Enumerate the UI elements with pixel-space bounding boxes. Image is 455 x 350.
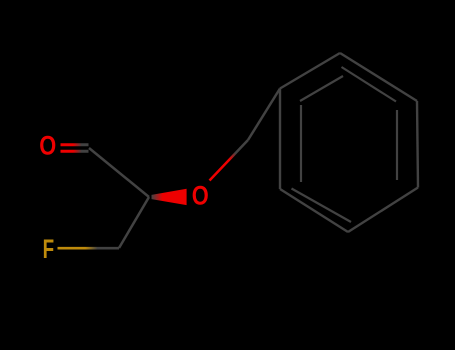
ring inner line on C-D bbox=[396, 110, 398, 180]
svg-text:O: O bbox=[192, 181, 209, 211]
ring inner line on E-F bbox=[292, 189, 352, 223]
wire CH2-ipso bbox=[248, 89, 280, 141]
wire C3-F bbox=[58, 247, 120, 250]
ring edge C-D bbox=[417, 101, 418, 188]
ring edge F-A bbox=[279, 89, 281, 190]
wire C2-C3 bbox=[119, 197, 149, 248]
ring inner line on B-C bbox=[342, 67, 397, 102]
wire C1-C2 bbox=[89, 148, 149, 197]
double bond C1=O1 bbox=[61, 145, 89, 152]
svg-text:O: O bbox=[39, 130, 56, 160]
wedge bond C2-O2 (stereocenter) bbox=[152, 189, 187, 205]
ring edge A-B bbox=[280, 53, 340, 89]
svg-text:F: F bbox=[43, 234, 55, 264]
benzene ring (phenyl, double-line style) bbox=[280, 53, 418, 232]
wire O2-CH2 bbox=[210, 140, 249, 181]
ring edge E-F bbox=[280, 189, 348, 232]
ring inner line on F-A bbox=[300, 105, 302, 182]
ring edge B-C bbox=[340, 53, 417, 101]
ring inner line on A-B bbox=[300, 76, 343, 101]
ring edge D-E bbox=[348, 188, 418, 233]
